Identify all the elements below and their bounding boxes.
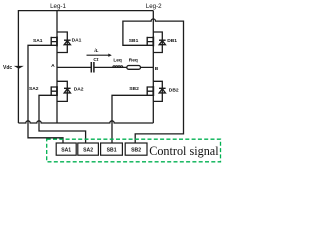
wire leg-1 vertical	[56, 11, 58, 123]
switch cell SA2 outline	[57, 81, 67, 101]
svg-text:Control signal: Control signal	[149, 144, 219, 158]
control box SA1	[56, 143, 76, 155]
transistor SA1	[51, 37, 57, 47]
control box SB1	[101, 143, 123, 155]
control box SB2	[125, 143, 147, 155]
svg-text:Req: Req	[129, 57, 138, 63]
wire top bus	[18, 10, 153, 12]
wire bottom bus with hops	[18, 121, 153, 123]
svg-text:DA2: DA2	[74, 86, 84, 92]
resistor Req	[127, 66, 141, 70]
svg-text:SB1: SB1	[107, 147, 117, 153]
svg-text:A: A	[51, 63, 55, 69]
diode DA2	[64, 88, 71, 93]
transistor SA2	[51, 86, 57, 96]
wire gate SB2 routing	[112, 95, 147, 143]
wire gate SA2 routing	[39, 95, 86, 143]
switch cell SB2 outline	[153, 81, 162, 101]
capacitor Ct	[91, 62, 94, 73]
transistor SB2	[147, 86, 153, 96]
current arrow iL	[87, 54, 112, 57]
switch cell SB1 outline	[153, 32, 162, 53]
svg-text:Vdc: Vdc	[3, 65, 12, 71]
svg-text:Leg-1: Leg-1	[50, 3, 66, 10]
svg-text:iL: iL	[94, 48, 98, 53]
svg-text:SA1: SA1	[33, 38, 43, 44]
diode DB1	[159, 40, 166, 45]
svg-text:SA2: SA2	[83, 147, 93, 153]
svg-text:DB2: DB2	[169, 87, 179, 93]
svg-text:SB1: SB1	[129, 38, 139, 44]
svg-text:Leg-2: Leg-2	[146, 3, 162, 10]
wire left Vdc rail	[17, 10, 19, 123]
svg-text:DB1: DB1	[167, 38, 177, 44]
diode DB2	[159, 88, 166, 93]
svg-text:Ct: Ct	[93, 57, 98, 63]
inductor Leq	[113, 66, 123, 68]
svg-text:SA1: SA1	[61, 147, 71, 153]
svg-text:SB2: SB2	[129, 86, 139, 92]
switch cell SA1 outline	[57, 32, 67, 53]
svg-text:B: B	[155, 66, 159, 72]
transistor SB1	[147, 37, 153, 47]
Vdc source arrow	[14, 66, 24, 69]
wire gate SB1 routing	[123, 19, 184, 143]
wire leg-2 vertical	[152, 11, 154, 123]
svg-text:Leq: Leq	[113, 57, 122, 63]
wire middle branch A-B	[57, 66, 153, 68]
control signal dashed group box	[47, 139, 221, 162]
control box SA2	[78, 143, 99, 155]
svg-text:SA2: SA2	[29, 86, 39, 92]
svg-text:SB2: SB2	[131, 147, 141, 153]
diode DA1	[64, 40, 71, 45]
svg-text:DA1: DA1	[72, 38, 82, 44]
wire gate SA1 routing	[28, 45, 63, 143]
